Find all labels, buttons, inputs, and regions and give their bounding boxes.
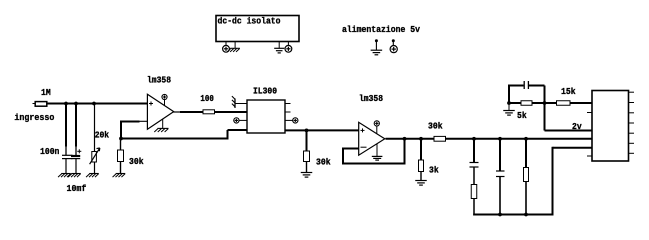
svg-text:100: 100 <box>200 94 214 104</box>
svg-text:30k: 30k <box>316 158 331 168</box>
svg-text:20k: 20k <box>95 131 110 141</box>
svg-text:ingresso: ingresso <box>14 113 54 123</box>
svg-text:IL300: IL300 <box>253 87 277 97</box>
svg-text:lm358: lm358 <box>147 76 171 86</box>
svg-text:2v: 2v <box>572 122 582 132</box>
svg-text:30k: 30k <box>428 122 443 132</box>
svg-text:30k: 30k <box>129 157 144 167</box>
svg-text:5k: 5k <box>517 111 527 121</box>
svg-text:dc-dc isolato: dc-dc isolato <box>218 17 281 27</box>
svg-text:3k: 3k <box>429 166 439 176</box>
svg-text:15k: 15k <box>561 87 576 97</box>
svg-text:alimentazione 5v: alimentazione 5v <box>342 25 421 35</box>
svg-text:100n: 100n <box>40 147 59 157</box>
svg-text:lm358: lm358 <box>359 94 383 104</box>
svg-text:1M: 1M <box>41 88 51 98</box>
svg-text:10mf: 10mf <box>67 184 87 194</box>
